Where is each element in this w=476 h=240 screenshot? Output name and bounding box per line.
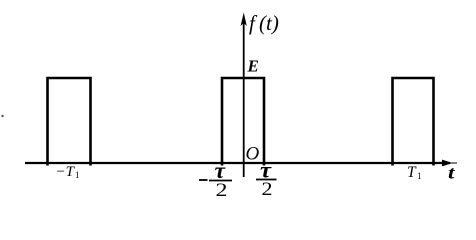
svg-text:t: t <box>448 163 456 183</box>
svg-text:2: 2 <box>262 180 273 200</box>
stray speck <box>1 115 3 117</box>
svg-text:f (t): f (t) <box>249 11 279 35</box>
svg-text:O: O <box>246 144 260 165</box>
svg-text:τ: τ <box>215 158 226 183</box>
pulse at 0 <box>222 78 264 166</box>
pulse at T1 <box>393 78 434 166</box>
svg-text:−T1: −T1 <box>56 164 80 180</box>
label -tau/2 : fraction bar <box>209 180 232 182</box>
svg-text:E: E <box>247 57 259 76</box>
svg-text:2: 2 <box>216 181 228 201</box>
label -tau/2 : minus sign <box>199 179 208 181</box>
label tau/2 : fraction bar <box>256 179 277 181</box>
pulse at -T1 <box>48 78 91 166</box>
svg-text:T1: T1 <box>407 164 422 181</box>
f(t)-axis (vertical) <box>241 13 247 178</box>
t-axis (horizontal) <box>25 160 457 167</box>
